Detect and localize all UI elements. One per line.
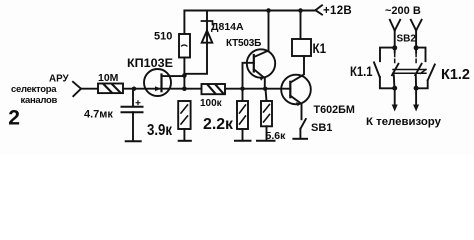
- svg-text:510: 510: [154, 31, 172, 43]
- svg-text:каналов: каналов: [21, 95, 58, 106]
- svg-text:селектора: селектора: [11, 84, 57, 95]
- svg-text:2.2к: 2.2к: [203, 116, 233, 133]
- svg-text:5.6к: 5.6к: [266, 130, 287, 142]
- svg-text:4.7мк: 4.7мк: [84, 109, 113, 121]
- svg-text:SB2: SB2: [397, 34, 417, 45]
- svg-text:КТ503Б: КТ503Б: [226, 38, 261, 49]
- svg-text:Т602БМ: Т602БМ: [314, 104, 355, 116]
- svg-text:Д814А: Д814А: [211, 21, 244, 33]
- svg-text:10М: 10М: [98, 72, 119, 84]
- svg-text:~200 В: ~200 В: [385, 5, 421, 17]
- svg-text:2: 2: [8, 107, 20, 130]
- svg-text:100к: 100к: [200, 98, 223, 109]
- svg-text:К телевизору: К телевизору: [366, 116, 442, 128]
- svg-text:+12В: +12В: [323, 5, 352, 17]
- svg-text:К1: К1: [313, 41, 327, 56]
- svg-text:К1.2: К1.2: [441, 66, 470, 83]
- svg-text:К1.1: К1.1: [350, 63, 373, 79]
- svg-text:КП103Е: КП103Е: [127, 56, 173, 70]
- svg-text:SB1: SB1: [311, 122, 332, 134]
- svg-text:3.9к: 3.9к: [147, 122, 172, 139]
